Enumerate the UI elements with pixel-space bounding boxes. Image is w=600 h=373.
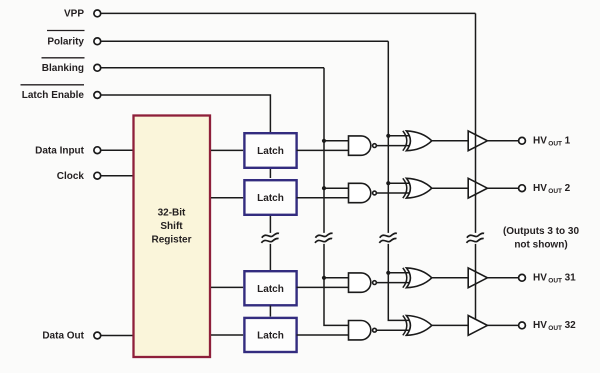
- note outputs 3 to 30 not shown: [503, 226, 580, 250]
- XOR gate row 4: [403, 316, 432, 336]
- latch 3: [244, 271, 296, 305]
- wire Data Input to shift register: [101, 149, 133, 151]
- node HV OUT 31 label: [533, 273, 576, 285]
- junction on Blanking bus row 3: [322, 276, 326, 280]
- wire shift register to latch 4: [211, 334, 243, 336]
- junction on Polarity bus row 3: [386, 271, 390, 275]
- XOR gate row 1: [403, 131, 432, 151]
- wire latch 3 to NAND3: [297, 286, 349, 288]
- wire VPP horizontal: [101, 12, 476, 14]
- wire XOR2 to buffer 2: [432, 187, 468, 189]
- latch 4: [244, 318, 296, 352]
- wire shift register to latch 2: [211, 197, 243, 199]
- NAND gate row 1: [349, 136, 377, 155]
- node Blanking terminal: [94, 64, 101, 71]
- break symbol on VPP bus: [467, 233, 485, 243]
- svg-text:Latch Enable: Latch Enable: [22, 90, 85, 101]
- wire VPP through buffer 3: [475, 271, 477, 286]
- svg-text:Polarity: Polarity: [47, 36, 84, 47]
- wire latch 2 down to break: [269, 216, 271, 233]
- shift register U1: [134, 116, 211, 358]
- junction on Blanking bus row 2: [322, 186, 326, 190]
- wire Blanking horizontal: [101, 67, 324, 69]
- XOR gate row 2: [403, 178, 432, 198]
- node HV OUT 31 terminal: [519, 274, 526, 281]
- XOR gate row 3: [403, 268, 432, 288]
- svg-text:Shift: Shift: [160, 221, 183, 232]
- svg-text:Data Input: Data Input: [35, 145, 85, 156]
- wire Polarity horizontal: [101, 40, 388, 42]
- buffer driver row 2: [468, 178, 487, 198]
- latch 1: [244, 133, 296, 168]
- node Clock terminal: [94, 172, 101, 179]
- svg-text:Latch: Latch: [257, 284, 284, 295]
- wire VPP through buffer 1: [475, 134, 477, 149]
- wire buffer 3 to HV OUT 31: [487, 277, 518, 279]
- buffer driver row 4: [468, 316, 487, 336]
- break symbol on Polarity bus: [379, 233, 397, 243]
- svg-text:32-Bit: 32-Bit: [158, 208, 186, 219]
- wire Blanking to NAND3: [324, 277, 349, 279]
- node Latch Enable terminal: [94, 92, 101, 99]
- wire break to latch 3: [269, 244, 271, 270]
- wire buffer 2 to HV OUT 2: [487, 187, 518, 189]
- wire latch 1 to latch 2: [269, 169, 271, 178]
- node VPP terminal: [94, 10, 101, 17]
- svg-text:(Outputs 3 to 30: (Outputs 3 to 30: [503, 226, 580, 237]
- wire shift register to latch 1: [211, 149, 243, 151]
- svg-text:HV: HV: [533, 183, 547, 194]
- node Data Out terminal: [94, 332, 101, 339]
- svg-text:HV: HV: [533, 320, 547, 331]
- wire Blanking to NAND1: [324, 140, 349, 142]
- wire Blanking to NAND2: [324, 187, 349, 189]
- wire XOR3 to buffer 3: [432, 277, 468, 279]
- junction on Polarity bus row 1: [386, 134, 390, 138]
- wire VPP through buffer 2: [475, 181, 477, 196]
- break symbol on Blanking bus: [315, 233, 333, 243]
- wire latch 4 to NAND4: [297, 334, 349, 336]
- wire NAND3 to XOR3: [376, 282, 409, 284]
- svg-text:VPP: VPP: [64, 9, 84, 20]
- buffer driver row 1: [468, 131, 487, 151]
- wire Blanking vertical upper: [323, 68, 325, 233]
- latch 2: [244, 180, 296, 215]
- wire Polarity vertical upper: [387, 41, 389, 233]
- wire buffer 1 to HV OUT 1: [487, 140, 518, 142]
- wire Latch Enable to latch 1: [101, 95, 270, 132]
- wire NAND4 to XOR4: [376, 329, 409, 331]
- wire Polarity to XOR2: [388, 182, 409, 184]
- svg-text:Latch: Latch: [257, 331, 284, 342]
- svg-text:OUT: OUT: [548, 277, 562, 284]
- wire NAND2 to XOR2: [376, 192, 409, 194]
- wire NAND1 to XOR1: [376, 145, 409, 147]
- node HV OUT 1 terminal: [519, 137, 526, 144]
- break symbol on latch chain: [261, 233, 279, 243]
- svg-text:HV: HV: [533, 136, 547, 147]
- node HV OUT 32 terminal: [519, 322, 526, 329]
- wire buffer 4 to HV OUT 32: [487, 324, 518, 326]
- svg-text:Register: Register: [151, 235, 191, 246]
- svg-text:not shown): not shown): [514, 239, 567, 250]
- svg-text:HV: HV: [533, 273, 547, 284]
- svg-text:2: 2: [565, 183, 571, 194]
- junction on Polarity bus row 2: [386, 181, 390, 185]
- wire Polarity to XOR1: [388, 135, 409, 137]
- wire latch 3 to latch 4: [269, 306, 271, 317]
- NAND gate row 3: [349, 273, 377, 292]
- svg-text:OUT: OUT: [548, 188, 562, 195]
- buffer driver row 3: [468, 268, 487, 288]
- node Latch Enable label: [21, 85, 85, 101]
- node Polarity terminal: [94, 38, 101, 45]
- svg-text:Latch: Latch: [257, 193, 284, 204]
- NAND gate row 4: [349, 321, 377, 340]
- wire XOR1 to buffer 1: [432, 140, 468, 142]
- node HV OUT 2 terminal: [519, 185, 526, 192]
- node HV OUT 1 label: [533, 136, 571, 148]
- wire XOR4 to buffer 4: [432, 324, 468, 326]
- node Data Input terminal: [94, 147, 101, 154]
- wire latch 2 to NAND2: [297, 197, 349, 199]
- svg-text:OUT: OUT: [548, 140, 562, 147]
- wire Polarity to XOR3: [388, 272, 409, 274]
- wire VPP vertical lower: [475, 244, 477, 320]
- wire Polarity vertical lower to XOR4 input: [388, 244, 409, 321]
- wire Clock to shift register: [101, 175, 133, 177]
- svg-text:Clock: Clock: [57, 171, 85, 182]
- wire latch 1 to NAND1: [297, 149, 349, 151]
- svg-text:OUT: OUT: [548, 325, 562, 332]
- wire Data Out to shift register: [101, 335, 133, 337]
- svg-text:31: 31: [565, 273, 577, 284]
- wire VPP vertical upper: [475, 13, 477, 233]
- node HV OUT 32 label: [533, 320, 576, 332]
- NAND gate row 2: [349, 183, 377, 202]
- node Blanking label: [42, 58, 85, 74]
- node HV OUT 2 label: [533, 183, 571, 195]
- svg-text:Latch: Latch: [257, 146, 284, 157]
- svg-text:Data Out: Data Out: [42, 331, 84, 342]
- svg-text:Blanking: Blanking: [42, 63, 84, 74]
- svg-text:32: 32: [565, 320, 577, 331]
- wire shift register to latch 3: [211, 286, 243, 288]
- junction on Blanking bus row 1: [322, 139, 326, 143]
- wire Blanking vertical lower to NAND4 input: [324, 244, 349, 326]
- svg-text:1: 1: [565, 136, 571, 147]
- node Polarity label: [47, 31, 85, 48]
